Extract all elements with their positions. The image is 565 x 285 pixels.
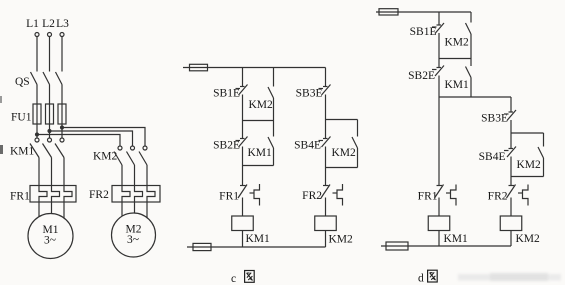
wire: [49, 124, 51, 138]
wire c branch1 top: [242, 68, 244, 87]
wire QS to FU1: [36, 85, 38, 105]
node L3: [56, 18, 69, 37]
svg-text:KM2: KM2: [516, 233, 541, 245]
wire c top bus: [183, 67, 326, 69]
wire: [242, 166, 244, 186]
wire parallel top: [511, 132, 544, 134]
node L1: [26, 18, 39, 37]
svg-text:SB4E: SB4E: [294, 140, 321, 152]
contact KM2 seal-in: [249, 68, 274, 121]
svg-text:L3: L3: [56, 18, 69, 30]
thermal contact FR1: [219, 184, 259, 206]
wire: [325, 168, 327, 186]
edge smudge: [0, 96, 2, 103]
wire: [510, 198, 512, 217]
svg-text:KM2: KM2: [445, 37, 470, 49]
wire KM1 to FR1: [38, 158, 40, 186]
contact KM1 seal-in: [445, 59, 472, 98]
fuse c bottom: [193, 243, 211, 250]
wire FR1 to M1: [38, 202, 40, 222]
svg-text:KM2: KM2: [249, 99, 274, 111]
contact KM2 seal-in: [445, 12, 472, 59]
wire: [134, 165, 136, 186]
wire c branch2 top: [325, 68, 327, 87]
coil KM2: [500, 216, 540, 245]
svg-text:FR2: FR2: [488, 191, 508, 203]
wire: [242, 121, 244, 139]
contactor KM1 main contacts: [10, 138, 64, 158]
motor M1: [28, 214, 73, 259]
pushbutton SB1E: [213, 85, 247, 100]
svg-text:FR1: FR1: [418, 191, 438, 203]
wire: [242, 231, 244, 248]
pushbutton SB3E: [481, 110, 516, 125]
svg-text:d: d: [418, 273, 424, 285]
svg-text:L1: L1: [26, 18, 39, 30]
junction dot phase1: [35, 132, 39, 136]
coil KM2: [315, 216, 353, 246]
wire join: [511, 176, 544, 178]
wire: [61, 124, 63, 138]
wire: [146, 202, 148, 221]
caption c: [231, 271, 254, 285]
wire join: [326, 167, 358, 169]
junction dot phase3: [60, 125, 64, 129]
wire: [242, 95, 244, 121]
wire join node: [439, 96, 511, 98]
wire join: [243, 120, 274, 122]
wire L2 to QS: [49, 37, 51, 72]
coil KM1: [232, 216, 270, 245]
svg-text:3~: 3~: [44, 235, 56, 247]
contact KM1 seal-in: [248, 121, 274, 166]
wire d top bus: [376, 11, 471, 13]
pushbutton SB3E: [296, 85, 331, 100]
svg-text:FR1: FR1: [10, 191, 30, 203]
wire: [61, 85, 63, 105]
wire: [510, 231, 512, 247]
wire KM2 to FR2: [121, 165, 123, 186]
wire: [325, 147, 327, 168]
contact KM2 seal-in: [517, 133, 544, 177]
wire: [510, 157, 512, 177]
svg-text:SB4E: SB4E: [479, 151, 506, 163]
thermal relay FR1: [10, 186, 76, 203]
thermal contact FR1: [418, 185, 456, 206]
thermal relay FR2: [89, 186, 160, 203]
wire: [325, 95, 327, 139]
svg-text:KM2: KM2: [517, 159, 542, 171]
wire L1 to QS: [36, 37, 38, 72]
wire L3 to QS: [61, 37, 63, 72]
svg-text:KM1: KM1: [246, 233, 271, 245]
wire: [438, 198, 440, 217]
watermark: [458, 273, 561, 281]
fuse c top: [190, 64, 208, 71]
wire: [51, 202, 53, 218]
wire: [146, 165, 148, 186]
wire: [438, 12, 440, 25]
wire c bottom bus: [187, 246, 326, 248]
svg-text:FR2: FR2: [302, 190, 322, 202]
svg-text:FR1: FR1: [219, 191, 239, 203]
wire FR2 to M2: [121, 202, 123, 221]
wire: [63, 202, 65, 222]
wire: [510, 120, 512, 149]
caption d: [418, 270, 437, 284]
svg-text:SB3E: SB3E: [481, 113, 508, 125]
svg-text:SB3E: SB3E: [296, 88, 323, 100]
fuse d bottom: [386, 242, 408, 250]
svg-text:SB2E: SB2E: [213, 140, 240, 152]
wire: [242, 147, 244, 166]
pushbutton SB4E: [479, 147, 516, 164]
svg-text:FU1: FU1: [11, 112, 32, 124]
fuse d top: [379, 9, 398, 15]
coil KM1: [428, 216, 468, 245]
wire join: [243, 165, 274, 167]
wire: [49, 85, 51, 105]
thermal contact FR2: [302, 184, 342, 206]
wire d bottom bus: [381, 245, 511, 247]
wire: [63, 158, 65, 186]
wire: [325, 198, 327, 217]
wire: [438, 76, 440, 98]
node L2: [42, 18, 55, 37]
svg-text:3~: 3~: [127, 234, 139, 246]
edge smudge: [0, 145, 3, 154]
svg-text:SB1E: SB1E: [213, 88, 240, 100]
svg-text:KM1: KM1: [445, 79, 470, 91]
switch QS: [15, 72, 62, 88]
wire tap phase1 to KM2: [37, 135, 120, 147]
wire: [438, 231, 440, 247]
wire FU1 to KM1 contacts: [36, 124, 38, 138]
contactor KM2 main contacts: [93, 146, 147, 165]
wire: [242, 198, 244, 217]
pushbutton SB2E: [213, 137, 247, 152]
pushbutton SB2E: [408, 66, 444, 83]
svg-text:L2: L2: [42, 18, 55, 30]
svg-text:c: c: [231, 273, 236, 285]
contact KM2 seal-in: [332, 120, 358, 168]
svg-text:FR2: FR2: [89, 189, 109, 201]
junction dot phase2: [47, 129, 51, 133]
wire: [438, 97, 440, 185]
motor M2: [112, 213, 156, 257]
svg-text:KM1: KM1: [248, 147, 273, 159]
svg-text:QS: QS: [15, 76, 30, 88]
thermal contact FR2: [488, 185, 528, 206]
wire: [510, 177, 512, 186]
wire tap phase2 to KM2: [50, 131, 133, 146]
svg-text:KM2: KM2: [329, 234, 354, 246]
wire: [134, 202, 136, 217]
wire: [438, 33, 440, 59]
svg-text:KM1: KM1: [444, 233, 469, 245]
pushbutton SB1E: [410, 23, 444, 38]
svg-text:KM2: KM2: [332, 147, 357, 159]
svg-text:SB2E: SB2E: [408, 70, 435, 82]
wire parallel top: [326, 119, 358, 121]
pushbutton SB4E: [294, 137, 330, 152]
wire: [325, 231, 327, 248]
wire: [51, 158, 53, 186]
wire: [438, 59, 440, 68]
wire d right branch: [510, 97, 512, 112]
wire join: [439, 58, 471, 60]
svg-text:KM1: KM1: [10, 146, 35, 158]
svg-text:SB1E: SB1E: [410, 26, 437, 38]
fuse FU1: [11, 104, 66, 124]
wire tap phase3 to KM2: [62, 128, 145, 147]
